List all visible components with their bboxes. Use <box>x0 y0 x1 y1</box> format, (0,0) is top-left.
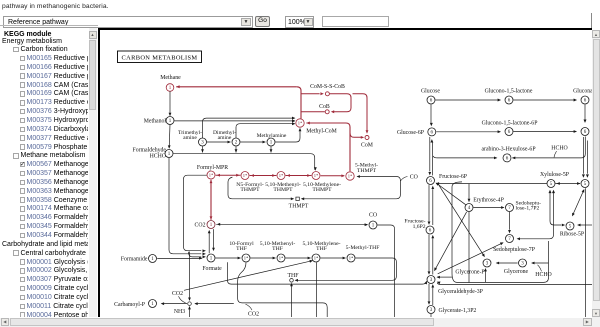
wire 5-methyl-THMPT to methyl-CoM <box>306 121 350 171</box>
svg-text:THMPT: THMPT <box>357 167 377 173</box>
wire lactone-6P right <box>513 130 577 133</box>
label Glucono-1,5-lactone-6P <box>482 120 538 126</box>
svg-text:Glucose-6P: Glucose-6P <box>397 130 424 136</box>
label CO2 bottom <box>248 311 259 317</box>
wire dimethylamine to methylamine <box>240 140 266 143</box>
wire col5 down b <box>586 140 589 177</box>
node Carbamoyl-P <box>149 299 157 307</box>
node Glucono-1,5-lactone-6P <box>505 127 513 135</box>
label Fructose-6P <box>439 174 467 180</box>
svg-text:1*: 1* <box>279 255 284 260</box>
node carbamoyl junction <box>188 301 192 305</box>
reaction Formyl-MPR node 1* <box>207 171 215 179</box>
label 5,10-Methenyl-THF <box>260 240 296 251</box>
svg-text:1*: 1* <box>349 255 354 260</box>
wire formaldehyde collector rail <box>173 153 316 170</box>
tick CO2 bottom curve <box>246 304 253 310</box>
node Erythrose-4P <box>465 203 473 211</box>
label Sedoheptulose-1,7P2 <box>516 200 542 211</box>
svg-text:CoM: CoM <box>361 142 373 148</box>
wire F16P2 to F6P b <box>431 185 434 224</box>
wire xylulose-b to ribose slant <box>572 189 584 216</box>
label CoM-S-S-CoB <box>310 83 345 89</box>
wire F6P to G6P b <box>430 139 433 175</box>
label Methane <box>160 75 181 81</box>
wire E4P to sedo-1,7P2 <box>473 206 504 209</box>
wire dimethylamine loop <box>236 122 295 138</box>
wire formyl-MPR left loop to formate <box>184 175 207 252</box>
toolbar: Reference pathway select <box>3 16 253 28</box>
svg-text:THF: THF <box>288 272 300 278</box>
svg-text:THMPT: THMPT <box>289 203 309 209</box>
svg-text:1*: 1* <box>314 173 319 178</box>
stub methylamine down <box>270 146 273 153</box>
wire glycine vertical <box>316 262 318 317</box>
wire 5-methyl-THF return loop to THF <box>295 258 397 282</box>
reaction Methyl-CoM 1* <box>296 118 304 126</box>
wire col5 down a <box>582 137 585 178</box>
label Trimethylamine <box>178 130 202 141</box>
reaction 5-Methyl-THF node <box>347 254 355 262</box>
svg-text:NH3: NH3 <box>174 309 185 315</box>
node Ribose-5P <box>566 222 574 230</box>
svg-text:HCHO: HCHO <box>150 153 166 159</box>
svg-text:Erythrose-4P: Erythrose-4P <box>473 197 504 203</box>
label CO right of THMPT loop <box>410 174 418 180</box>
wire CO2 to CO <box>216 222 368 225</box>
wire into ribose from right edge <box>577 223 592 226</box>
wire gluconolactone to gluconate <box>513 98 577 101</box>
svg-text:1,6P2: 1,6P2 <box>413 224 426 230</box>
svg-text:CO: CO <box>410 174 418 180</box>
wire G3P to glycerate a <box>428 284 431 305</box>
label NH3 <box>174 309 185 315</box>
right pane edge line above scrollbar <box>591 13 592 29</box>
node Sedoheptulose-7P <box>506 234 514 242</box>
wire xylulose col b to sedo-7P <box>517 189 555 240</box>
svg-text:Methyl-CoM: Methyl-CoM <box>306 128 337 134</box>
diagonal E4P to G3P <box>434 211 466 270</box>
svg-text:CoB: CoB <box>319 103 330 109</box>
svg-text:Glycerone: Glycerone <box>504 268 529 274</box>
wire methane to methanol <box>169 91 172 116</box>
svg-text:lose-1,7P2: lose-1,7P2 <box>516 205 540 211</box>
label Fructose-1,6P2 <box>404 218 425 230</box>
node Trimethylamine <box>199 138 207 146</box>
label CO2 near carbamoyl <box>172 290 183 296</box>
svg-text:THF: THF <box>272 246 283 252</box>
label 5-Methyl-THMPT <box>355 162 378 173</box>
svg-text:Fructose-6P: Fructose-6P <box>439 174 467 180</box>
diagonal E4P to F6P <box>436 182 466 204</box>
label 5,10-Methylene-THF <box>302 240 340 251</box>
wire methanol to methyl-CoM <box>174 119 295 122</box>
wire formamide to formate <box>157 256 202 259</box>
node Fructose-6P <box>427 176 435 184</box>
svg-text:Glucono-1,5-lactone-6P: Glucono-1,5-lactone-6P <box>482 120 538 126</box>
wire formate to 10-formyl-THF <box>215 256 241 259</box>
wire methenyl to methylene-THMPT <box>286 174 312 177</box>
wire methenyl to methylene-THF <box>285 256 311 259</box>
label Glucose <box>421 88 440 94</box>
node Glyceraldehyde-3P <box>427 275 435 283</box>
wire methylene to 5-methyl-THF <box>320 256 346 259</box>
label Sedoheptulose-7P <box>493 247 535 253</box>
wire into glycerone from right <box>531 261 548 264</box>
node CO <box>369 221 377 229</box>
label CoM <box>361 142 373 148</box>
node Xylulose-5P <box>547 179 555 187</box>
wire glycerone-P from below <box>484 268 487 282</box>
wire hexulose from right <box>512 136 585 159</box>
svg-text:1*: 1* <box>279 173 284 178</box>
wire G3P to F16P2 b <box>431 234 434 274</box>
tick HCHO to hexulose line <box>554 151 557 157</box>
node THMPT square <box>296 197 299 200</box>
svg-text:Gluconate: Gluconate <box>573 88 592 94</box>
label THMPT <box>289 203 309 209</box>
svg-text:amine: amine <box>218 135 232 141</box>
label Formaldehyde HCHO <box>133 147 167 159</box>
svg-text:Carbamoyl-P: Carbamoyl-P <box>114 301 145 307</box>
node Glycerone-P <box>483 259 491 267</box>
label Formate <box>202 266 222 272</box>
tick CO on THMPT loop <box>400 176 407 181</box>
label CO2 <box>195 222 206 228</box>
wire NH3 from below <box>188 306 191 318</box>
svg-text:Glycerate-1,3P2: Glycerate-1,3P2 <box>439 308 477 314</box>
svg-text:1*: 1* <box>298 120 303 125</box>
stub into G3P from box <box>437 275 453 278</box>
wire hexulose from left <box>433 155 497 158</box>
label 5,10-Methylene-THMPT <box>303 181 341 192</box>
node Formamide <box>149 254 157 262</box>
wire formaldehyde down to formate <box>169 157 206 254</box>
label Methylamine <box>257 132 287 138</box>
wire CoM-S-S-CoB to CoM <box>353 93 369 133</box>
label Glucono-1,5-lactone <box>485 88 533 94</box>
svg-text:CO2: CO2 <box>172 290 183 296</box>
diagonal G3P to sedo-7P <box>438 242 504 273</box>
wire glycerone to glycerone-P <box>496 261 518 264</box>
node Glucono-1,5-lactone <box>505 96 513 104</box>
node Glycerone <box>519 259 527 267</box>
tick HCHO to glycerone line <box>538 264 542 271</box>
node Fructose-1,6P2 <box>426 226 434 234</box>
wire formate bypass to glyceraldehyde-3P <box>227 262 427 284</box>
compound CoM-S-S-CoB <box>325 91 329 95</box>
map svg placeholder <box>100 30 592 318</box>
label arabino-3-Hexulose-6P <box>481 146 535 152</box>
wire CO down right column <box>377 225 394 318</box>
label CO above CO node <box>369 212 377 218</box>
reaction 10-Formyl-THF node <box>242 254 250 262</box>
wire F6P-xyl drop to E4P <box>468 183 471 201</box>
svg-text:1*: 1* <box>314 255 319 260</box>
node Sedoheptulose-1,7P2 <box>506 203 514 211</box>
wire glycerate down <box>430 313 432 317</box>
wire xylulose col a to ribose <box>549 189 566 226</box>
diagonal F6P to glycerone-P <box>439 185 485 257</box>
label Glycerone-P <box>455 269 484 275</box>
wire trimethylamine to dimethylamine <box>207 140 231 143</box>
label 5,10-Methenyl-THMPT <box>265 181 301 192</box>
svg-text:Formate: Formate <box>202 266 222 272</box>
svg-text:CO2: CO2 <box>248 311 259 317</box>
node Glucose-6P <box>428 127 436 135</box>
svg-text:Ribose-5P: Ribose-5P <box>560 231 584 237</box>
node THF junction <box>290 278 294 282</box>
wire F16P2 to G3P a <box>428 234 431 274</box>
wire G6P to F6P a <box>428 136 431 175</box>
label THF <box>288 272 300 278</box>
svg-text:1*: 1* <box>243 173 248 178</box>
svg-text:1*: 1* <box>244 255 249 260</box>
node Glycerate-1,3P2 <box>427 305 435 313</box>
reaction 5,10-Methenyl-THMPT node 1* <box>277 171 285 179</box>
label Formamide <box>121 256 148 262</box>
label Glycerone <box>504 268 529 274</box>
svg-text:Glyceraldehyde-3P: Glyceraldehyde-3P <box>438 288 483 294</box>
label CoB <box>319 103 330 109</box>
junction arrows into methyl-CoM <box>292 119 295 122</box>
wire carbamoyl node from above <box>188 251 191 300</box>
reaction 5-Methyl-THMPT node 1* <box>346 171 354 179</box>
compound CO2 node <box>207 220 215 228</box>
wire E4P long vertical <box>468 211 470 282</box>
wire trimethylamine loop <box>203 116 296 138</box>
stub dimethylamine down <box>235 146 238 153</box>
node Methanol <box>166 116 174 124</box>
right vertical scrollbar <box>592 30 600 318</box>
description line 2 <box>2 3 109 10</box>
node Formaldehyde <box>165 149 173 157</box>
reaction 5,10-Methenyl-THF node <box>277 254 285 262</box>
wire into carbamoyl node from right <box>194 302 234 305</box>
node 6-P-gluconate <box>581 127 589 135</box>
wire glucose to gluconolactone <box>435 98 501 101</box>
wire formyl-MPR to N5-formyl-THMPT <box>216 173 241 176</box>
wire THF from below <box>290 282 293 317</box>
svg-text:Xylulose-5P: Xylulose-5P <box>540 172 569 178</box>
label HCHO bottom <box>535 272 551 278</box>
label Methyl-CoM <box>306 128 337 134</box>
svg-text:THF: THF <box>236 246 247 252</box>
wire branch to CoM <box>350 132 364 138</box>
wire methanol to formaldehyde <box>168 124 171 148</box>
node Xylulose-5P b <box>581 179 589 187</box>
label 5-Methyl-THF <box>346 244 380 250</box>
svg-text:THMPT: THMPT <box>240 187 260 193</box>
wire glycerate to G3P b <box>431 284 434 305</box>
svg-text:CARBON METABOLISM: CARBON METABOLISM <box>122 54 198 61</box>
svg-text:1*: 1* <box>209 172 214 177</box>
left sidebar list <box>0 28 88 317</box>
wire formate to CO2 up <box>208 229 211 252</box>
compound CoM <box>365 135 369 139</box>
label Ribose-5P <box>560 231 584 237</box>
label Glycerate-1,3P2 <box>439 308 477 314</box>
node Methane C01438 <box>166 83 174 91</box>
svg-text:Methane: Methane <box>160 75 181 81</box>
svg-text:Sedoheptulose-7P: Sedoheptulose-7P <box>493 247 535 253</box>
wire methyl-CoM to methane <box>176 85 297 88</box>
wire gluconate down <box>584 104 587 123</box>
label Methanol <box>144 118 167 124</box>
wire serine diagonal to methylene-THF <box>184 259 313 289</box>
wire THMPT label box <box>228 175 400 200</box>
bottom horizontal scrollbar <box>0 318 600 327</box>
wire right column long vertical <box>585 188 587 317</box>
wire sedo-1,7P2 to sedo-7P <box>508 211 511 233</box>
tick CO2 into carbamoyl line <box>179 296 186 303</box>
svg-text:Glucose: Glucose <box>421 88 440 94</box>
svg-text:HCHO: HCHO <box>535 272 551 278</box>
wire methylamine to methyl-CoM <box>275 127 301 141</box>
svg-text:Formamide: Formamide <box>121 256 148 262</box>
svg-text:amine: amine <box>183 135 197 141</box>
search input <box>322 16 389 27</box>
label Dimethylamine <box>213 130 236 141</box>
wire CoM-S-S-CoB loop top <box>301 92 351 113</box>
wire methylene to 5-methyl-THMPT <box>321 174 345 177</box>
reaction 5,10-Methylene-THMPT node 1* <box>312 171 320 179</box>
wire to carbamoyl-P <box>161 302 187 305</box>
node arabino-3-Hexulose-6P <box>503 153 511 161</box>
label Glucose-6P <box>397 130 424 136</box>
svg-text:1*: 1* <box>348 173 353 178</box>
compound CoB <box>325 109 329 113</box>
label Glyceraldehyde-3P <box>438 288 483 294</box>
label Formyl-MPR <box>197 165 228 171</box>
svg-text:CO2: CO2 <box>195 222 206 228</box>
label N5-Formyl-THMPT <box>236 181 264 192</box>
svg-text:Formyl-MPR: Formyl-MPR <box>197 165 228 171</box>
svg-text:THMPT: THMPT <box>312 187 332 193</box>
label Erythrose-4P <box>473 197 504 203</box>
wire xylulose to F6P <box>436 182 547 185</box>
stub trimethylamine down <box>201 146 204 153</box>
reaction N5-Formyl-THMPT node 1* <box>241 171 249 179</box>
wire 10-formyl to methenyl-THF <box>250 256 276 259</box>
wire glucose to glucose-6P <box>430 104 433 126</box>
wire CO2 to formate down <box>212 229 215 251</box>
svg-text:Glycerone-P: Glycerone-P <box>455 269 484 275</box>
node Glucose <box>427 96 435 104</box>
svg-text:THF: THF <box>316 246 327 252</box>
svg-text:5-Methyl-THF: 5-Methyl-THF <box>346 244 380 250</box>
label 10-Formyl-THF <box>229 240 254 251</box>
svg-text:Methanol: Methanol <box>144 118 167 124</box>
wire 10-formyl-THF down curve <box>238 262 328 317</box>
reaction 5,10-Methylene-THF node <box>312 254 320 262</box>
wire F6P to F16P2 a <box>428 185 431 225</box>
wire long bottom line to right edge <box>437 281 592 284</box>
wire N5-formyl to methenyl-THMPT <box>250 174 277 177</box>
wire third feeder to formate <box>189 251 206 257</box>
node Dimethylamine <box>232 138 240 146</box>
wire xylulose pair <box>555 182 580 185</box>
box pentose group <box>452 181 549 282</box>
svg-text:CO: CO <box>369 212 377 218</box>
svg-text:Glucono-1,5-lactone: Glucono-1,5-lactone <box>485 88 533 94</box>
title box CARBON METABOLISM <box>118 51 202 63</box>
svg-text:HCHO: HCHO <box>551 145 567 151</box>
node Formate <box>207 254 215 262</box>
node Methylamine <box>267 138 275 146</box>
Go button <box>255 16 270 27</box>
zoom select 100% <box>285 16 314 28</box>
node Gluconate <box>581 96 589 104</box>
svg-text:THMPT: THMPT <box>273 187 293 193</box>
label Gluconate (clipped) <box>573 88 597 94</box>
svg-text:arabino-3-Hexulose-6P: arabino-3-Hexulose-6P <box>481 146 535 152</box>
wire glucose-6P to lactone-6P <box>436 130 501 133</box>
sidebar scrollbar <box>89 28 97 317</box>
label Xylulose-5P <box>540 172 569 178</box>
wire CO2 to formyl-MPR (reversible) <box>210 179 213 219</box>
wire methyl-CoM riser <box>297 86 301 118</box>
svg-text:CoM-S-S-CoB: CoM-S-S-CoB <box>310 83 345 89</box>
map frame black border <box>98 28 592 30</box>
sidebar top hairline <box>0 25 98 26</box>
label Carbamoyl-P <box>114 301 145 307</box>
label HCHO top right <box>551 145 567 151</box>
